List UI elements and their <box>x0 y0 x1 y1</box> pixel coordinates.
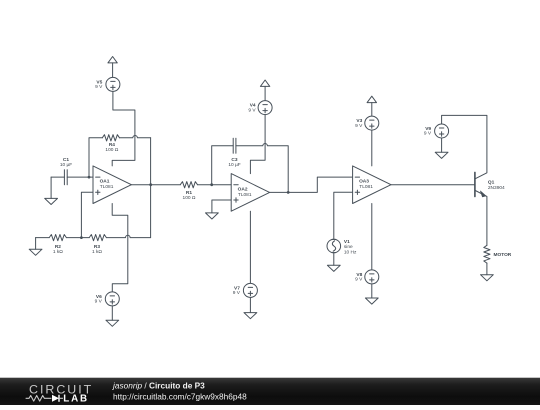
svg-text:V1: V1 <box>344 239 350 245</box>
svg-text:10 Hz: 10 Hz <box>344 250 357 256</box>
svg-text:OA2: OA2 <box>238 186 248 192</box>
svg-text:2N3904: 2N3904 <box>488 185 505 191</box>
svg-text:http://circuitlab.com/c7gkw9x8: http://circuitlab.com/c7gkw9x8h6p48 <box>113 391 247 401</box>
svg-text:9 V: 9 V <box>95 299 103 305</box>
svg-text:R2: R2 <box>55 244 61 250</box>
svg-text:TL081: TL081 <box>100 184 114 190</box>
svg-text:OA3: OA3 <box>359 179 369 185</box>
svg-text:9 V: 9 V <box>355 123 363 129</box>
svg-text:C1: C1 <box>63 157 69 163</box>
svg-text:10 µF: 10 µF <box>228 162 240 168</box>
svg-text:1 kΩ: 1 kΩ <box>92 249 102 255</box>
svg-text:LAB: LAB <box>63 393 89 404</box>
svg-text:9 V: 9 V <box>355 277 363 283</box>
svg-text:9 V: 9 V <box>424 131 432 137</box>
svg-text:C3: C3 <box>231 157 237 163</box>
svg-text:R4: R4 <box>109 142 115 148</box>
svg-text:sine: sine <box>344 244 353 250</box>
svg-text:9 V: 9 V <box>248 107 256 113</box>
svg-text:10 µF: 10 µF <box>60 162 72 168</box>
svg-text:OA1: OA1 <box>100 179 110 185</box>
svg-text:R3: R3 <box>94 244 100 250</box>
svg-text:R1: R1 <box>186 190 192 196</box>
svg-text:1 kΩ: 1 kΩ <box>53 249 63 255</box>
svg-text:TL081: TL081 <box>359 184 373 190</box>
svg-text:jasonrip / Circuito de P3: jasonrip / Circuito de P3 <box>112 380 205 390</box>
svg-text:9 V: 9 V <box>233 290 241 296</box>
svg-text:100 Ω: 100 Ω <box>105 147 118 153</box>
svg-text:Q1: Q1 <box>488 179 495 185</box>
svg-text:100 Ω: 100 Ω <box>183 195 196 201</box>
svg-text:9 V: 9 V <box>95 84 103 90</box>
svg-text:MOTOR: MOTOR <box>494 252 512 258</box>
svg-text:TL081: TL081 <box>238 192 252 198</box>
